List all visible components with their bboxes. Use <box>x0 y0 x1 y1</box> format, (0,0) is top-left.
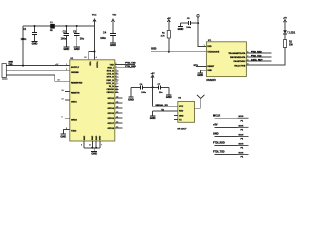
ground below C2 <box>63 47 69 51</box>
capacitor C1 <box>21 25 38 42</box>
svg-text:RXD_I: RXD_I <box>107 67 114 69</box>
power symbol VIO <box>111 15 116 34</box>
svg-text:GPIO4: GPIO4 <box>108 107 115 110</box>
svg-text:P2: P2 <box>240 130 243 132</box>
U2 left pin stubs <box>174 116 178 120</box>
net label DATA_RDY <box>251 59 263 62</box>
capacitor C4 <box>100 32 116 43</box>
svg-text:P1: P1 <box>240 120 243 122</box>
wire RTS into IC1 <box>196 65 206 67</box>
IC1 right pin names <box>228 52 246 68</box>
svg-text:TXD3: TXD3 <box>71 131 77 133</box>
svg-text:330: 330 <box>289 45 294 47</box>
capacitor C6 <box>140 84 147 94</box>
svg-text:RESETN: RESETN <box>71 92 80 94</box>
svg-text:TXD/ANODE: TXD/ANODE <box>207 51 219 54</box>
svg-text:GPIO2: GPIO2 <box>108 98 115 100</box>
power symbol +5V LED <box>283 18 287 31</box>
net label SERIAL_RX <box>155 104 168 107</box>
svg-text:GND: GND <box>207 70 212 72</box>
svg-text:CBUS0: CBUS0 <box>106 89 114 91</box>
svg-text:100n: 100n <box>141 92 146 94</box>
U2 pin names <box>179 106 184 122</box>
svg-text:GND: GND <box>178 27 184 31</box>
svg-text:GND: GND <box>110 43 116 47</box>
wire +5V riser to top rail <box>22 26 24 66</box>
ground left of C5 <box>178 23 184 31</box>
svg-text:SERIAL_RX: SERIAL_RX <box>155 104 168 107</box>
ground right of C7 <box>166 87 172 99</box>
node junction ground bus <box>91 147 97 149</box>
pin number 20 top pin <box>84 57 87 59</box>
svg-text:100n: 100n <box>61 38 67 41</box>
LED LED1 <box>283 30 296 39</box>
net label FTDI_TXD <box>251 56 262 58</box>
svg-text:GND: GND <box>96 135 98 140</box>
capacitor C7 <box>158 84 164 94</box>
net label RTS <box>194 65 199 67</box>
test point pad <box>197 15 199 17</box>
svg-text:VIO: VIO <box>112 15 116 17</box>
svg-text:GND: GND <box>91 152 97 156</box>
power symbol VCC <box>92 15 97 26</box>
U1 left pin stub RESETN <box>61 90 69 92</box>
ground below C4 <box>110 43 116 47</box>
svg-text:3: 3 <box>61 117 63 119</box>
svg-text:GND: GND <box>128 97 134 101</box>
svg-text:RN42/XV: RN42/XV <box>206 79 216 82</box>
svg-text:GND: GND <box>32 42 38 46</box>
svg-text:DATA_RDY: DATA_RDY <box>251 59 263 62</box>
svg-text:RTS_N: RTS_N <box>107 71 115 73</box>
svg-text:GND: GND <box>179 115 184 117</box>
wire IC1 to FTDI_TXD <box>246 56 271 58</box>
IC IC1 module body <box>206 40 246 77</box>
svg-text:RXACTIVE: RXACTIVE <box>234 65 246 68</box>
IC1 part number <box>206 79 216 82</box>
svg-text:DCD_N: DCD_N <box>106 83 114 85</box>
svg-text:8: 8 <box>81 144 83 146</box>
U1 right upper pin stubs <box>115 69 119 93</box>
svg-text:100n: 100n <box>186 27 191 29</box>
net label FTDI_TXD <box>125 63 136 65</box>
svg-text:FTDI_TXD: FTDI_TXD <box>251 56 262 58</box>
power symbol +5V mid <box>151 73 155 87</box>
svg-text:GPIO8: GPIO8 <box>108 128 115 130</box>
svg-text:100n: 100n <box>21 38 27 41</box>
wire IC1 RXACTIVE to LED column <box>246 48 285 66</box>
wire U1 ground bus <box>84 147 100 149</box>
node junction R1 RXD <box>168 51 170 53</box>
capacitor C5 <box>181 18 199 29</box>
wire test point down to IC1 pin <box>198 17 206 47</box>
svg-text:RESET: RESET <box>207 66 214 68</box>
U2 part number <box>177 128 187 130</box>
wire RXD net to IC1 <box>151 51 207 53</box>
svg-text:GND: GND <box>166 95 172 99</box>
inductor L1 ferrite bead on rail <box>50 22 55 32</box>
wire IC1 to DATA_RDY <box>246 59 271 61</box>
svg-text:21: 21 <box>89 144 92 146</box>
IC1 bottom left pin names <box>207 66 214 72</box>
svg-text:10u: 10u <box>80 38 85 41</box>
ground IC1 GND pin <box>197 70 206 77</box>
U1 left pin names <box>71 67 83 132</box>
ground below C3 <box>74 47 80 51</box>
svg-text:GNDBB: GNDBB <box>71 72 79 74</box>
svg-text:4.7k: 4.7k <box>161 34 166 37</box>
svg-text:GND: GND <box>213 133 219 136</box>
IC1 left pin names <box>207 46 219 53</box>
svg-text:FB: FB <box>50 30 53 32</box>
svg-text:TRANSMITDATA: TRANSMITDATA <box>228 52 245 55</box>
U1 left pin stub GND2 <box>61 117 69 119</box>
capacitor C2 <box>61 25 70 47</box>
net label RXD <box>151 48 156 51</box>
svg-text:100n: 100n <box>100 37 106 40</box>
svg-text:C3: C3 <box>73 30 77 33</box>
connector row FTDI_TXD <box>213 151 249 159</box>
net label FTDI_RXD <box>251 52 262 54</box>
connector row FTDI_RXD <box>213 142 249 150</box>
U1 left pin number RESERVED <box>57 80 60 82</box>
svg-text:GND: GND <box>150 116 156 120</box>
svg-text:24: 24 <box>61 90 64 92</box>
wire IC1 to FTDI_RXD <box>246 52 271 54</box>
svg-text:C2: C2 <box>63 30 67 33</box>
svg-text:GND: GND <box>84 135 86 140</box>
pin number 4 top pin <box>96 57 98 59</box>
svg-text:RECEIVEDATA: RECEIVEDATA <box>230 56 246 59</box>
wire U2 GND pin <box>153 110 178 112</box>
svg-text:GND: GND <box>197 73 203 77</box>
svg-text:RI_N: RI_N <box>109 86 114 88</box>
connector row GND <box>213 133 249 141</box>
U1 right lower pin stubs <box>115 97 123 129</box>
svg-text:DSR_N: DSR_N <box>106 80 114 82</box>
wire J1 pin2 to U1 <box>6 70 70 72</box>
wire VCC down to U1 top pins <box>89 26 95 60</box>
svg-text:LED1: LED1 <box>289 32 296 34</box>
wire U1 RXD to FTDI_RXD <box>115 66 135 68</box>
U1 bottom pin names vertical GND <box>84 135 102 140</box>
power symbol +5V pullup <box>167 18 171 31</box>
svg-text:+5V: +5V <box>213 124 218 127</box>
U1 left pin TXD3 to ground <box>60 128 69 138</box>
svg-text:C5: C5 <box>187 18 191 20</box>
wire top +5V rail <box>23 25 95 27</box>
wire +5V down to U2 VCC <box>153 87 178 106</box>
ground left of C6 <box>128 87 134 101</box>
svg-text:FTDI_RXD: FTDI_RXD <box>213 142 225 145</box>
U1 left pin number GNDBB <box>66 69 68 71</box>
node junction at riser and connector wire <box>22 65 24 67</box>
svg-text:SUPPLY: SUPPLY <box>71 67 80 69</box>
connector row +5V <box>213 124 249 132</box>
svg-text:VCC: VCC <box>92 15 97 17</box>
svg-text:4: 4 <box>96 57 98 59</box>
capacitor C3 <box>73 25 85 47</box>
U1 right lower pin names <box>108 98 115 130</box>
svg-text:R1: R1 <box>162 32 166 34</box>
wire R1 to RXD line <box>168 38 170 52</box>
svg-text:FTDI_TXD: FTDI_TXD <box>125 63 136 65</box>
wire +5V net from connector to U1 SUPPLY pin <box>6 65 70 67</box>
svg-text:VDD: VDD <box>89 62 91 67</box>
connector row MCLR <box>213 114 249 122</box>
svg-text:VCC: VCC <box>179 106 184 108</box>
svg-text:GPIO3: GPIO3 <box>108 103 115 105</box>
svg-text:GND: GND <box>64 47 70 51</box>
svg-text:R2: R2 <box>289 41 293 43</box>
svg-text:TXD: TXD <box>110 64 115 66</box>
svg-text:MCLR: MCLR <box>213 114 220 117</box>
module U2 body <box>178 98 195 123</box>
resistor R1 <box>161 31 171 39</box>
net label TX <box>161 110 164 112</box>
svg-text:C4: C4 <box>103 32 107 35</box>
svg-text:GND: GND <box>100 135 102 140</box>
connector J1 <box>2 62 14 79</box>
svg-text:GP-20U7: GP-20U7 <box>177 128 187 130</box>
svg-text:C1: C1 <box>23 28 27 31</box>
U1 left pin stub GND1 <box>61 98 69 100</box>
wire U1 TXD to FTDI_TXD <box>115 63 135 65</box>
node junction VCC split <box>94 51 96 53</box>
svg-text:FTDI_TXD: FTDI_TXD <box>213 151 225 154</box>
svg-text:GPIO7: GPIO7 <box>108 123 115 125</box>
svg-text:GND2: GND2 <box>71 119 78 121</box>
net label +5V on supply wire <box>55 64 59 66</box>
node junction C5 tap <box>197 22 199 24</box>
svg-text:U2: U2 <box>178 98 182 100</box>
svg-text:20: 20 <box>84 57 87 59</box>
net label FTDI_RXD <box>125 66 136 68</box>
U1 right upper pin names <box>106 64 114 94</box>
svg-text:RXD: RXD <box>207 46 212 48</box>
svg-text:10u: 10u <box>159 92 163 94</box>
svg-text:RXD: RXD <box>151 48 156 51</box>
wire mid decoupling rail <box>131 86 169 88</box>
svg-text:GND: GND <box>92 135 94 140</box>
svg-text:P4: P4 <box>240 147 243 150</box>
svg-text:GND1: GND1 <box>71 101 78 103</box>
svg-text:P3: P3 <box>240 139 243 141</box>
svg-text:RTS: RTS <box>194 65 199 67</box>
svg-text:FTDI_RXD: FTDI_RXD <box>125 66 136 68</box>
svg-text:7: 7 <box>101 144 103 146</box>
resistor R2 <box>283 40 293 48</box>
svg-text:GND: GND <box>60 134 66 138</box>
svg-text:PASSTHRU: PASSTHRU <box>234 60 246 63</box>
svg-text:TXD: TXD <box>8 64 13 66</box>
U1 bottom pin stubs <box>81 141 103 148</box>
svg-text:RXD: RXD <box>179 111 184 113</box>
ground U2 <box>150 111 156 120</box>
wire J1 pin3 jog to U1 <box>6 75 70 81</box>
svg-text:P5: P5 <box>240 157 243 159</box>
ground below U1 <box>91 148 97 156</box>
svg-text:FTDI_RXD: FTDI_RXD <box>251 52 262 54</box>
svg-text:CBUS1: CBUS1 <box>106 92 114 94</box>
svg-text:GND: GND <box>74 47 80 51</box>
node junction mid rail <box>152 86 154 88</box>
antenna <box>195 95 205 108</box>
svg-text:GPIO5: GPIO5 <box>108 113 115 115</box>
svg-text:CTS_N: CTS_N <box>107 74 115 76</box>
svg-text:RESERVED: RESERVED <box>71 82 83 84</box>
svg-text:VCCIO: VCCIO <box>95 62 97 69</box>
svg-text:12: 12 <box>61 98 64 100</box>
U1 left pin number SUPPLY <box>66 64 68 66</box>
U1 top pin names vertical <box>89 62 98 69</box>
svg-text:DTR_N: DTR_N <box>107 77 115 79</box>
svg-text:GPIO6: GPIO6 <box>108 118 115 120</box>
IC U1 module body <box>70 58 115 141</box>
ground below C1 <box>31 42 37 46</box>
